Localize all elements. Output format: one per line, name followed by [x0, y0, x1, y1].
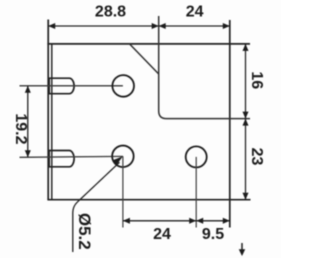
arrow bottom left: [123, 218, 130, 224]
dimension line bottom: [123, 220, 230, 222]
arrow top left: [48, 23, 55, 29]
plate top edge: [47, 43, 250, 45]
dimension line right: [245, 44, 247, 200]
svg-text:24: 24: [153, 226, 171, 243]
dimension line top: [48, 25, 230, 27]
svg-text:24: 24: [186, 4, 204, 21]
plate bottom edge: [47, 199, 250, 201]
arrow top right: [223, 23, 230, 29]
arrow bottom mid-right: [196, 218, 203, 224]
arrow right dim 16 top: [243, 44, 249, 51]
icon down arrow: [241, 243, 243, 251]
svg-text:19.2: 19.2: [12, 113, 29, 144]
arrow right dim 23 bottom: [243, 193, 249, 200]
center line row1: [20, 85, 123, 87]
hole H3: [186, 146, 207, 167]
svg-text:9.5: 9.5: [202, 226, 224, 243]
arrow left dim bottom: [25, 150, 31, 157]
arrow top mid-left: [152, 23, 159, 29]
svg-text:16: 16: [248, 71, 265, 89]
bend line vertical with corner arc: [159, 16, 250, 119]
hole H1: [112, 75, 134, 97]
svg-text:28.8: 28.8: [95, 4, 126, 21]
leader line diameter: [73, 162, 120, 252]
boss B2 side view: [49, 151, 74, 167]
hole H2: [112, 146, 133, 168]
arrow bottom right: [223, 218, 230, 224]
extension line hole H2 down: [122, 156, 124, 227]
svg-text:Ø5.2: Ø5.2: [75, 213, 94, 250]
plate left outer edge: [47, 20, 49, 200]
plate right edge: [229, 20, 231, 228]
boss B1 side view: [49, 78, 74, 94]
arrow left dim top: [25, 86, 31, 93]
leader arrow at hole H2: [113, 156, 123, 165]
plate left inner edge: [51, 44, 53, 200]
bend chamfer diagonal: [130, 44, 159, 74]
dimension line left 19.2: [27, 86, 29, 158]
arrow bottom mid-left: [189, 218, 196, 224]
center line row2: [20, 155, 123, 158]
arrow top mid-right: [159, 23, 166, 29]
extension line hole H3 down: [195, 157, 197, 228]
arrow right dim 23 top: [243, 119, 249, 126]
arrow right dim 16 bottom: [243, 112, 249, 119]
svg-text:23: 23: [248, 148, 265, 166]
